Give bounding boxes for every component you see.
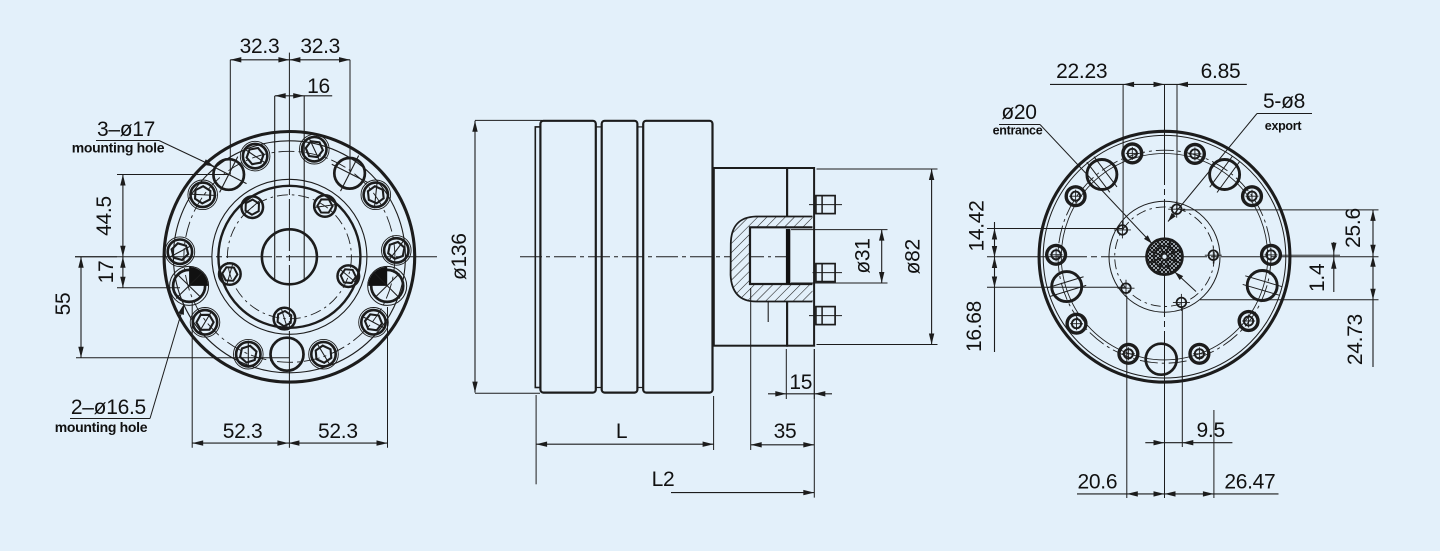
dim 52.3 ext right [387,307,389,448]
bolt 2 (side view) [816,264,835,282]
dim 44.5 line [122,175,124,257]
mounting hole 3-o17 #2 with cross (left view) [334,158,365,189]
leader to entrance from SE [1175,272,1196,292]
leader 5-o8 [1257,113,1312,115]
dim 26.47 ext [1213,410,1215,498]
centerline ext left [75,256,117,258]
dim 32.3/32.3 line [230,59,350,61]
cylinder section 1 [540,121,595,393]
dim 16.68 ext [987,286,1126,288]
large mounting hole 3 (right view) [1052,272,1082,302]
export hole 5-o8 #2 [1118,225,1128,235]
svg-text:32.3: 32.3 [240,35,280,58]
dim 44.5 ext top [117,174,229,176]
svg-text:15: 15 [789,371,812,394]
dim 15 ext left [785,349,787,399]
bottom large hole (left view) [271,338,304,371]
svg-text:26.47: 26.47 [1224,471,1275,494]
export hole 5-o8 #5 [1209,250,1219,260]
dim 9.5 line [1145,442,1232,444]
dim 32.3 ext line right [349,60,351,174]
dim o31 ext bottom [791,282,888,284]
svg-text:L2: L2 [652,468,675,491]
ring hole 5 (right view) [1262,246,1281,265]
dim 15 ext right [813,349,815,399]
large mounting hole 2 (right view) [1210,160,1240,190]
hex socket screw hole 7 (left view) [240,141,270,171]
dim 1.4 ext [1282,254,1340,256]
ring hole 8 (right view) [1119,344,1138,363]
dim 14.42 ext [987,228,1122,230]
inner hex plug hole 2 (left view) [274,308,296,330]
inner hex plug hole 3 (left view) [219,263,241,285]
svg-text:mounting hole: mounting hole [55,419,148,435]
dim 20.6 ext [1126,296,1128,498]
gland plate [787,168,814,346]
right view outer circle [1039,131,1290,382]
bottom large hole (right view) [1146,344,1177,375]
flange plate [714,168,787,346]
dim 9.5 ext d [1181,308,1183,447]
left view inner step circle [212,179,367,334]
dim 22.23 ext [1122,84,1124,230]
svg-text:L: L [616,420,627,443]
svg-text:5-ø8: 5-ø8 [1263,90,1305,113]
dim 25.6 ext [1183,209,1379,211]
svg-text:17: 17 [95,261,118,284]
dim 25.6/24.73 line [1372,210,1374,367]
svg-text:24.73: 24.73 [1344,314,1367,365]
inner hex plug hole 5 (left view) [314,195,336,217]
dim 55 ext bottom [76,357,289,359]
dim 17 ext bottom [117,287,180,289]
dim 52.3 ext left [191,302,193,448]
cylinder section 3 [643,121,712,393]
hex socket screw hole 9 (left view) [361,180,391,210]
hex socket screw hole 8 (left view) [300,134,330,164]
dim o136 line [474,121,476,393]
large mounting hole 1 (right view) [1087,160,1117,190]
leader 2-o16.5 [70,418,150,420]
bolt 1 (side view) [816,196,835,214]
svg-text:ø82: ø82 [902,239,925,274]
svg-text:ø136: ø136 [448,233,471,280]
dim 16 line [275,95,333,97]
ring hole 9 (right view) [1067,314,1086,333]
svg-text:mounting hole: mounting hole [72,140,165,156]
svg-text:entrance: entrance [993,124,1043,138]
seal bar (black) [786,229,790,284]
dim 15 line [768,393,832,395]
right view vertical centerline [1164,84,1166,133]
svg-text:2–ø16.5: 2–ø16.5 [71,396,146,419]
ring hole 3 (right view) [1186,145,1205,164]
dim o82 line [931,169,933,345]
left view chamfer circle [173,141,405,373]
ring hole 6 (right view) [1239,312,1258,331]
hex socket screw hole 2 (left view) [309,339,339,369]
mounting hole 2-o16.5 right (black sector) [371,270,403,302]
bolt 3 (side view) [816,307,835,325]
svg-text:16.68: 16.68 [963,301,986,352]
svg-text:16: 16 [307,75,330,98]
svg-text:14.42: 14.42 [966,200,989,251]
dim 20.6/26.47 line [1077,493,1279,495]
export hole 5-o8 #1 [1172,204,1182,214]
svg-text:20.6: 20.6 [1078,471,1118,494]
hex socket screw hole 4 (left view) [190,308,220,338]
svg-text:6.85: 6.85 [1201,60,1241,83]
left view inner boss circle [218,186,360,328]
mounting hole 3-o17 #1 with cross (left view) [213,159,244,190]
dim o31 ext top [791,229,888,231]
dim 6.85 ext [1176,84,1178,209]
bore slot line right / ext of dim 16 [303,96,305,282]
large mounting hole 4 (right view) [1247,271,1277,301]
leader o20 [999,124,1040,126]
right view horizontal centerline [987,256,1041,258]
centerline through bore [751,256,786,258]
left view outer circle (flange OD 136) [164,131,415,382]
svg-text:ø20: ø20 [1001,101,1036,124]
dim 1.4 line [1333,242,1335,292]
dim 35 ext right [813,349,815,498]
svg-text:44.5: 44.5 [93,196,116,236]
hex socket screw hole 5 (left view) [165,237,195,267]
left view vertical centerline [288,53,290,133]
svg-text:export: export [1265,119,1303,133]
right view port circle [1109,201,1220,312]
dim o82 ext top [817,168,938,170]
right view chamfer circle [1043,135,1286,378]
left end lip plate [535,127,540,388]
dim L ext right [713,396,715,450]
left view inner bolt circle (dash-dot) [227,195,351,319]
dim o31 line [881,230,883,283]
divider cap lines [596,126,602,128]
dim L line [536,443,714,445]
left view outer bolt circle (dash-dot) [184,151,395,362]
central entrance hole o20 (hatched) [1147,239,1183,275]
dim 24.73 ext [1200,299,1379,301]
left view central bore [262,229,317,284]
left view horizontal centerline [75,256,166,258]
inner hex plug hole 4 (left view) [241,196,263,218]
dim 52.3 line [192,442,387,444]
bore slot line left / ext of dim 16 [274,96,276,282]
sectioned housing (hatched horseshoe) [731,217,813,302]
svg-text:25.6: 25.6 [1342,208,1365,248]
export hole 5-o8 #4 [1177,298,1187,308]
dim 35 ext left [750,288,752,450]
ring hole 1 (right view) [1066,187,1085,206]
middle view centerline [520,256,800,258]
dim 14.42/16.68 line [994,222,996,352]
dim L2 line [671,492,814,494]
export hole 5-o8 #3 [1121,283,1131,293]
svg-text:3–ø17: 3–ø17 [97,118,155,141]
dim 55 line [80,257,82,358]
svg-text:52.3: 52.3 [223,420,263,443]
svg-text:52.3: 52.3 [318,420,358,443]
dim o136 ext top [475,119,542,121]
svg-text:1.4: 1.4 [1306,263,1329,292]
right view outer bolt circle [1058,150,1271,363]
hex socket screw hole 10 (left view) [382,236,412,266]
svg-text:9.5: 9.5 [1197,419,1225,442]
ring hole 7 (right view) [1190,344,1209,363]
svg-text:22.23: 22.23 [1056,60,1107,83]
dim 17 line [122,257,124,288]
hex socket screw hole 3 (left view) [234,339,264,369]
hex socket screw hole 1 (left view) [359,308,389,338]
hex socket screw hole 6 (left view) [188,180,218,210]
cylinder section 2 [602,121,638,393]
leader 3-o17 [96,140,159,142]
ring hole 10 (right view) [1047,245,1066,264]
dim 35 line [751,444,815,446]
svg-text:35: 35 [774,420,797,443]
svg-text:55: 55 [52,293,75,316]
ring hole 4 (right view) [1243,187,1262,206]
ring hole 2 (right view) [1123,144,1142,163]
dim L ext left [535,395,537,484]
dim o136 ext bottom [475,392,540,394]
mounting hole 2-o16.5 left (black sector) [173,270,205,302]
bore hidden edge [767,302,769,323]
inner hex plug hole 1 (left view) [338,265,360,287]
dim 32.3 ext line left [229,60,231,175]
right view port bolt circle (dash-dot) [1115,207,1215,307]
svg-text:32.3: 32.3 [300,35,340,58]
dim 22.23/6.85 line [1050,83,1247,85]
dim o82 ext bottom [817,344,938,346]
svg-text:ø31: ø31 [852,238,875,273]
